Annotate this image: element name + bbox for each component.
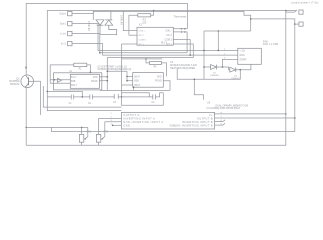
IC U5 box [133,73,164,88]
wire pin5 stub [215,124,223,126]
U5 softstart label [98,65,132,71]
wire J1 pin2 down to bus [72,24,238,51]
node relay rowA junction [181,28,183,30]
D1 label [210,72,219,77]
svg-text:(1N4001): (1N4001) [210,75,219,77]
resistor R4 [150,62,162,65]
svg-text:B A 7: B A 7 [71,76,77,79]
R3 label [142,19,147,25]
K1 pin labels [139,30,147,46]
svg-text:INVERTING INPUT B: INVERTING INPUT B [182,120,213,124]
svg-text:In (+): In (+) [60,33,66,36]
diode D3 (down) [96,20,104,35]
wire driver bottom rail [177,69,240,80]
wire U3 label leader [194,79,203,100]
wire pin7 [215,117,295,119]
node relay rowB junction [181,31,183,33]
relay K1 [137,27,173,45]
svg-text:NO 1: NO 1 [139,44,145,46]
wire diode outputs to relay [100,34,117,36]
wire J1 pin4 down to bus [72,44,238,56]
svg-text:B3B: B3B [134,81,139,83]
wire C4 feed [122,93,153,97]
svg-text:B3B: B3B [71,81,76,83]
svg-text:GND: GND [239,55,244,57]
svg-text:NON-INVERTING INPUT B: NON-INVERTING INPUT B [174,123,213,127]
wire input shield loop [47,11,123,111]
wire line2 staircase [111,11,295,131]
wire pin6 stub [215,121,223,123]
wire cap rail [47,96,149,98]
wire U5 pgnd right [163,81,170,91]
wire upper cap rail [47,91,82,97]
wire box-A left stubs [50,79,70,81]
connector power - [299,22,303,26]
node R3 top [153,10,155,12]
wire R3 right [151,11,154,16]
svg-text:220: 220 [142,21,147,24]
diode D1 [211,65,217,70]
connector J1 pin4 [68,41,72,45]
svg-text:Out(+): Out(+) [59,13,66,16]
svg-text:SUPERVISOR/SEQUENCER (0): SUPERVISOR/SEQUENCER (0) [98,69,132,71]
diode D2 [230,67,236,72]
wire R4 left [122,58,163,60]
capacitor C4 [153,94,156,99]
wire C4 loop [122,93,164,106]
svg-text:VDD: VDD [157,76,162,78]
wire relay pin4 left [122,43,138,45]
capacitor C2 [90,94,92,99]
svg-text:INVERTING INPUT A: INVERTING INPUT A [123,116,155,120]
svg-text:PGND: PGND [91,81,98,83]
J1 pin labels [59,13,66,46]
node D2 bottom rail [240,69,242,71]
svg-text:VDD: VDD [93,77,98,79]
wire pin2 [99,117,122,119]
svg-text:START: START [239,58,247,61]
transistor Q1 [21,75,34,88]
wire gnd return rail [52,127,295,131]
wire relay NO row1 right [173,28,187,30]
PR1 wiper [85,127,88,139]
Q1 value label [9,77,20,86]
svg-text:U5 SOFTSTART / LM311 (2): U5 SOFTSTART / LM311 (2) [98,65,127,68]
U1 outer enclosure [54,73,102,90]
svg-text:1N4148: 1N4148 [120,15,122,26]
wire bus2 [100,52,187,54]
wire driver output node [203,31,205,79]
wire pin8 v+ [215,113,286,115]
opamp U3 connection block [121,112,214,129]
resistor R3 [138,14,151,17]
svg-text:PR1: PR1 [87,132,92,134]
node emitter gnd [25,127,27,129]
IC U1 box-A [70,74,99,88]
wire U5 pins left [126,71,128,81]
wire D1 cathode node [217,67,230,70]
wire gnd row [26,126,88,128]
wire bus4 [107,57,193,59]
wire fan start row [223,59,238,67]
wire relay rowB right [173,32,187,53]
D2 label [231,75,240,80]
U3 right pin numbers [221,112,223,125]
svg-text:PR2: PR2 [104,132,109,134]
svg-text:Out(-): Out(-) [60,23,66,26]
node power rail top [285,10,287,12]
wire pin4 gnd [113,124,122,126]
capacitor C1 [71,94,73,99]
wire R1 left [50,65,74,83]
wire inner loop bottom [43,86,121,107]
U3 left pin numbers [110,113,112,126]
trimpot PR1 [79,134,83,142]
fan connector J3 [238,48,261,64]
svg-text:V+: V+ [209,113,213,117]
capacitor C3 [114,94,118,99]
connector power + [299,10,303,14]
connector J1 pin1 [68,11,72,15]
wire R3 left [129,15,138,35]
wire Q1 emitter [25,88,27,146]
svg-text:1N4148: 1N4148 [87,21,89,32]
connector J1 pin3 [68,31,72,35]
fan pin numbers [224,49,226,60]
svg-text:COM 3: COM 3 [139,40,147,42]
wire D2 cathode to fan box [236,64,251,69]
fan label [263,40,278,46]
U2 driver label block [170,61,198,70]
connector J1 pin2 [68,21,72,25]
svg-text:COIL +: COIL + [139,30,147,32]
wire top bus to relay pin1 [123,11,137,31]
wire relay coil left [129,34,137,36]
wire pin3 [105,121,122,123]
trimpot PR2 [96,134,100,142]
svg-text:NO 1: NO 1 [166,44,172,46]
diode loop top [93,11,111,20]
power vertical rail [26,11,286,146]
svg-text:B1A7: B1A7 [134,75,140,78]
wire box-A right pins [99,76,107,78]
PR2 wiper [102,122,105,139]
svg-text:COIL -: COIL - [165,31,172,33]
wire J1 pin1 to diode loop [72,13,93,15]
diode D4 (up) [105,20,117,35]
svg-text:FAN: 1.2 CFM: FAN: 1.2 CFM [263,43,278,46]
svg-text:OUTPUT A: OUTPUT A [123,113,139,117]
wire contact feed [204,30,251,32]
svg-text:GND,: GND, [170,124,176,127]
svg-text:OUTPUT B: OUTPUT B [197,116,213,120]
svg-text:PGND: PGND [155,81,162,83]
U3 label [207,101,249,110]
svg-text:Thermostat: Thermostat [174,15,187,18]
wire J1 pin3 down to bus [72,34,100,53]
wire top bus to power connector [123,10,296,12]
svg-text:NC 2: NC 2 [167,35,173,37]
wire R4 right [162,63,167,77]
resistor R1 [74,63,87,66]
svg-text:In (-): In (-) [61,43,66,46]
comparator triangle [58,78,62,82]
wire R1 right [87,65,91,72]
svg-text:HEATSINK REQUIRED: HEATSINK REQUIRED [170,67,195,70]
svg-text:+ 12v: + 12v [239,50,246,52]
wire Q1 base [33,81,40,115]
svg-text:BD243C: BD243C [10,83,20,86]
svg-text:NON-INVERTING INPUT A: NON-INVERTING INPUT A [123,120,163,124]
wire U5 bottom pin [133,87,135,90]
wire relay rowD right [173,44,193,58]
wire pin2 drop [98,118,100,131]
wire collector loop top [26,3,187,75]
wire U5 feed [107,70,127,72]
svg-text:NC 2: NC 2 [139,35,145,37]
svg-text:B4A7: B4A7 [134,84,140,87]
wire relay pin4 drop [121,44,123,97]
svg-text:COM 3: COM 3 [165,40,173,42]
svg-text:control power (+7.5v): control power (+7.5v) [291,2,318,5]
wire marker on collector [25,66,27,68]
svg-text:B4A 7: B4A 7 [71,84,78,87]
wire mid rail [100,89,170,91]
wire relay rowC right [173,40,190,56]
svg-text:U3 (LM358) PWR FROM PIN-8: U3 (LM358) PWR FROM PIN-8 [207,107,241,110]
svg-text:RLY-1: RLY-1 [161,43,168,45]
svg-text:GND: GND [123,123,130,127]
